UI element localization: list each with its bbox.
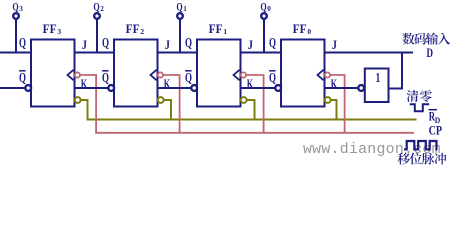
- svg-text:0: 0: [267, 5, 271, 13]
- svg-text:3: 3: [19, 5, 23, 13]
- svg-text:1: 1: [376, 71, 381, 86]
- svg-text:J: J: [332, 37, 338, 52]
- svg-text:J: J: [248, 37, 254, 52]
- svg-text:Q: Q: [269, 35, 276, 50]
- svg-text:Q: Q: [19, 70, 26, 85]
- svg-text:K: K: [164, 76, 171, 91]
- svg-text:K: K: [81, 76, 88, 91]
- svg-text:Q: Q: [93, 0, 99, 13]
- svg-text:2: 2: [140, 27, 144, 36]
- svg-text:K: K: [247, 76, 254, 91]
- svg-text:Q: Q: [102, 70, 109, 85]
- svg-text:Q: Q: [260, 0, 266, 13]
- svg-text:Q: Q: [185, 35, 192, 50]
- svg-text:Q: Q: [19, 35, 26, 50]
- svg-text:FF: FF: [43, 21, 57, 36]
- svg-text:1: 1: [183, 5, 187, 13]
- svg-text:0: 0: [307, 27, 311, 36]
- svg-text:CP: CP: [429, 123, 443, 137]
- svg-text:Q: Q: [176, 0, 182, 13]
- svg-text:Q: Q: [269, 70, 276, 85]
- svg-text:J: J: [165, 37, 171, 52]
- svg-text:2: 2: [100, 5, 104, 13]
- svg-text:1: 1: [223, 27, 227, 36]
- svg-text:D: D: [427, 46, 434, 60]
- svg-text:Q: Q: [12, 0, 18, 13]
- svg-text:FF: FF: [126, 21, 140, 36]
- svg-text:3: 3: [57, 27, 61, 36]
- svg-text:J: J: [82, 37, 88, 52]
- svg-text:FF: FF: [209, 21, 223, 36]
- svg-text:Q: Q: [185, 70, 192, 85]
- svg-text:K: K: [331, 76, 338, 91]
- svg-text:Q: Q: [102, 35, 109, 50]
- svg-text:FF: FF: [293, 21, 307, 36]
